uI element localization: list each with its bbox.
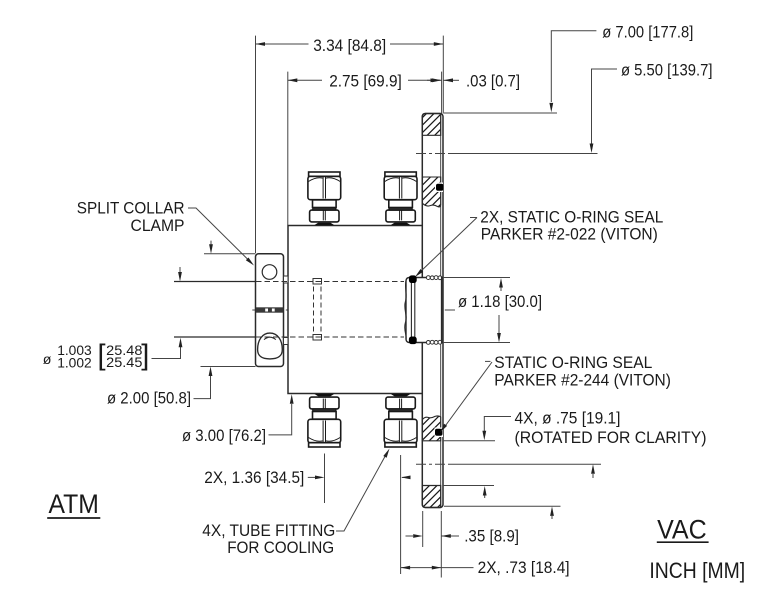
- dimension dia 3.00: [269, 404, 292, 435]
- svg-text:ATM: ATM: [49, 489, 99, 519]
- svg-text:PARKER #2-022 (VITON): PARKER #2-022 (VITON): [481, 225, 658, 244]
- dimension .03: [427, 79, 459, 81]
- svg-text:3.34 [84.8]: 3.34 [84.8]: [313, 36, 386, 55]
- clamp tab top: [284, 276, 289, 283]
- dimension 3.34: [256, 43, 444, 45]
- svg-text:PARKER #2-244 (VITON): PARKER #2-244 (VITON): [494, 370, 671, 389]
- bolt gap B bottom ext: [443, 485, 494, 487]
- cross hole top cap: [313, 279, 322, 285]
- tube atm side top edge: [174, 281, 256, 283]
- stub wavy break edge: [405, 281, 406, 339]
- svg-text:1.002: 1.002: [57, 355, 92, 371]
- bore bottom ext: [443, 342, 510, 344]
- clamp tab bottom: [284, 338, 289, 345]
- dimension 4X dia .75: [484, 417, 511, 499]
- ext 1.36 right / .73 left: [400, 455, 402, 574]
- svg-text:ø 5.50 [139.7]: ø 5.50 [139.7]: [621, 61, 713, 80]
- stub end line: [441, 277, 443, 344]
- svg-text:FOR COOLING: FOR COOLING: [227, 538, 334, 557]
- hidden cross hole left: [313, 279, 315, 341]
- dimension dia 7.00: [551, 31, 596, 519]
- flange hatch A: [422, 114, 440, 136]
- svg-text:ø: ø: [43, 352, 52, 368]
- bolt gap B top ext: [443, 440, 495, 442]
- oring groove lines: [410, 282, 412, 338]
- svg-text:]: ]: [141, 340, 149, 372]
- svg-text:ø 7.00 [177.8]: ø 7.00 [177.8]: [602, 22, 693, 41]
- ext 2.75 right: [441, 72, 443, 114]
- svg-text:INCH [MM]: INCH [MM]: [649, 558, 745, 583]
- svg-text:SPLIT COLLAR: SPLIT COLLAR: [77, 199, 185, 218]
- tube fitting bottom right: [384, 394, 417, 447]
- clamp split band: [256, 307, 283, 312]
- hidden bore line top: [256, 281, 404, 283]
- clamp dome inner arc: [264, 337, 276, 339]
- svg-text:ø 1.18 [30.0]: ø 1.18 [30.0]: [458, 292, 542, 311]
- svg-text:4X, ø .75 [19.1]: 4X, ø .75 [19.1]: [515, 409, 621, 428]
- oring notch lower: [435, 428, 444, 438]
- oring 244 lower dot: [435, 429, 443, 436]
- body: [288, 226, 423, 394]
- ext .35 left: [422, 511, 424, 547]
- stub weld scallops bottom: [426, 340, 442, 344]
- bolt circle CL bottom: [416, 463, 450, 465]
- clamp top edge ext: [204, 253, 256, 255]
- dimension 2.75: [288, 79, 442, 81]
- dimension 2X 1.36: [308, 476, 410, 478]
- split collar clamp: [256, 254, 284, 367]
- flange hatch B: [422, 177, 440, 207]
- flange hatch C: [422, 416, 440, 441]
- oring 022 bottom dot: [409, 337, 417, 345]
- tube fitting top right: [384, 172, 417, 225]
- dimension dia 5.50: [592, 69, 618, 478]
- flange top edge ext: [444, 112, 557, 114]
- flange: [422, 114, 443, 508]
- svg-text:(ROTATED FOR CLARITY): (ROTATED FOR CLARITY): [515, 428, 707, 447]
- svg-text:[: [: [98, 340, 106, 372]
- dimension dia 1.003: [152, 267, 181, 359]
- cross hole bottom cap: [313, 335, 322, 341]
- dimension dia 2.00: [194, 241, 212, 399]
- clamp top hole: [262, 265, 277, 280]
- ext 1.36 left: [324, 454, 326, 504]
- svg-text:ø 3.00 [76.2]: ø 3.00 [76.2]: [182, 426, 266, 445]
- flange hatch D: [422, 486, 440, 508]
- dimension .35: [406, 535, 460, 537]
- tube atm side bottom edge: [174, 336, 256, 338]
- svg-text:.03 [0.7]: .03 [0.7]: [466, 72, 520, 91]
- dimension 2X .73: [401, 567, 474, 569]
- hidden cross hole right: [320, 279, 322, 341]
- dimension dia 1.18: [499, 287, 501, 333]
- svg-text:.35 [8.9]: .35 [8.9]: [464, 526, 519, 545]
- hidden bore line bottom: [256, 336, 404, 338]
- clamp bottom dome: [258, 333, 283, 359]
- ext 3.34 right: [442, 36, 444, 114]
- bore top ext: [443, 277, 510, 279]
- flange face inner line: [440, 114, 442, 508]
- bolt circle CL top: [416, 153, 450, 155]
- flange bottom edge ext: [444, 505, 561, 507]
- svg-text:ø 2.00 [50.8]: ø 2.00 [50.8]: [107, 388, 191, 407]
- svg-text:2.75 [69.9]: 2.75 [69.9]: [329, 72, 402, 91]
- svg-text:2X, .73 [18.4]: 2X, .73 [18.4]: [478, 558, 570, 577]
- svg-text:VAC: VAC: [657, 514, 707, 544]
- svg-text:2X, 1.36 [34.5]: 2X, 1.36 [34.5]: [204, 468, 304, 487]
- centerline: [252, 309, 455, 311]
- svg-text:25.45: 25.45: [106, 355, 142, 371]
- stub weld scallops top: [426, 276, 442, 280]
- oring notch upper: [435, 183, 443, 193]
- oring 244 upper dot: [436, 184, 444, 191]
- ext 3.34 left: [255, 36, 257, 253]
- ext 2.75 left: [287, 72, 289, 225]
- clamp bottom edge ext: [201, 366, 256, 368]
- svg-text:CLAMP: CLAMP: [131, 216, 185, 235]
- svg-text:STATIC O-RING SEAL: STATIC O-RING SEAL: [494, 353, 652, 372]
- ext .35/.73 right: [440, 511, 442, 578]
- tube fitting bottom left: [308, 394, 341, 447]
- tube stub: [406, 278, 442, 343]
- oring 022 top dot: [409, 275, 417, 283]
- tube fitting top left: [308, 172, 341, 225]
